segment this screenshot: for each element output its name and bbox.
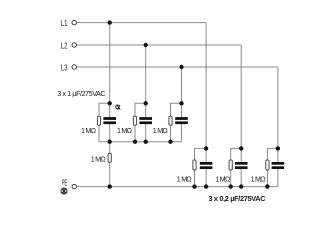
wire L1 horizontal [77,22,207,24]
wire R1 bottom [98,125,100,142]
wire jog to R1 [99,103,110,116]
junction R6 at PE [229,184,233,188]
wire jog to R6 [231,148,242,160]
junction Cy unit B top node [239,146,243,150]
wire L1 right vertical drop [205,23,207,149]
resistor R7 1 MOhm [266,160,269,170]
earth ground symbol at PE [61,188,67,194]
wire bleeder top [109,142,111,153]
junction C4 at PE [204,184,208,188]
wire jog to R7 [267,148,278,160]
wire C1 bottom lead [109,124,111,142]
svg-text:1 MΩ: 1 MΩ [153,126,169,135]
resistor R5 1 MOhm [193,160,196,170]
wire dropper L1 to Cx unit 1 [109,23,111,118]
svg-text:L3: L3 [61,65,68,73]
capacitor C5 Cy [235,162,248,169]
wire jog to R3 [171,103,182,116]
wire dropper to Cy unit C [277,148,279,162]
svg-text:1 MΩ: 1 MΩ [177,175,193,184]
svg-text:3 x 0,2 µF/275VAC: 3 x 0,2 µF/275VAC [208,194,266,203]
wire R7 bottom [266,170,268,187]
terminal L1 [72,20,76,24]
terminal PE [72,184,76,188]
wire dropper to Cy unit A [205,148,207,162]
svg-text:Cx: Cx [115,103,121,112]
wire dropper L3 to Cx unit 3 [181,67,183,117]
junction C2 at bottom bar [144,140,148,144]
junction Cx unit 2 top node [144,101,148,105]
terminal L3 [72,65,76,69]
capacitor C4 Cy [200,162,213,169]
capacitor C1 Cx [103,117,116,124]
wire R6 bottom [230,170,232,187]
wire dropper L2 to Cx unit 2 [145,45,147,117]
wire dropper to Cy unit B [240,148,242,162]
junction L2 tap [144,43,148,47]
wire L3 right vertical drop [277,67,279,148]
resistor R6 1 MOhm [229,160,232,170]
junction Cx unit 3 top node [179,101,183,105]
junction bleeder at PE [108,184,112,188]
junction Cy unit C top node [276,146,280,150]
wire R3 bottom [170,125,172,142]
junction Cx unit 1 top node [108,101,112,105]
wire L2 right vertical drop [240,45,242,148]
junction R5 at PE [192,184,196,188]
wire jog to R2 [135,103,146,116]
junction R2 at bottom bar [133,140,137,144]
wire C6 bottom lead [277,169,279,187]
svg-text:1 MΩ: 1 MΩ [81,126,97,135]
svg-text:3 x 1 µF/275VAC: 3 x 1 µF/275VAC [57,89,105,98]
svg-text:1 MΩ: 1 MΩ [91,154,107,163]
svg-text:1 MΩ: 1 MΩ [215,175,231,184]
wire jog to R5 [195,148,207,160]
capacitor C6 Cy [272,162,285,169]
junction C1 at bottom bar [108,140,112,144]
wire L3 horizontal [77,66,278,68]
wire C2 bottom lead [145,124,147,142]
resistor R4 bleeder 1 MOhm [108,153,111,162]
svg-text:1 MΩ: 1 MΩ [251,175,267,184]
resistor R1 1 MOhm [97,116,100,125]
wire R2 bottom [134,125,136,142]
svg-text:1 MΩ: 1 MΩ [117,126,133,135]
junction Cy unit A top node [204,146,208,150]
svg-text:L1: L1 [61,20,68,28]
wire L2 horizontal [77,44,242,46]
wire C5 bottom lead [240,169,242,187]
wire C4 bottom lead [205,169,207,187]
svg-text:PE: PE [62,179,68,188]
junction L1 tap [108,20,112,24]
wire R5 bottom [194,170,196,187]
junction R7 at PE [265,184,269,188]
capacitor C2 Cx [139,117,152,124]
junction C5 at PE [239,184,243,188]
capacitor C3 Cx [175,117,188,124]
resistor R2 1 MOhm [133,116,136,125]
terminal L2 [72,43,76,47]
wire bleeder bottom [109,162,111,186]
resistor R3 1 MOhm [169,116,172,125]
junction L3 tap [179,65,183,69]
wire Cx common bottom bar [99,141,182,143]
junction R3 at bottom bar [168,140,172,144]
wire C3 bottom lead [181,124,183,142]
wire PE horizontal [77,186,278,188]
svg-text:L2: L2 [61,43,68,51]
